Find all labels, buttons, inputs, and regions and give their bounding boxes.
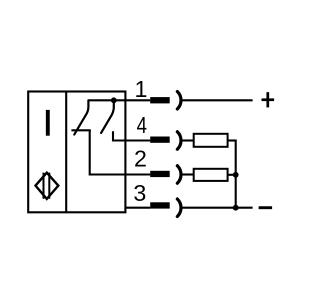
svg-text:2: 2 [134, 146, 147, 172]
svg-text:4: 4 [137, 113, 148, 138]
svg-text:3: 3 [133, 180, 146, 206]
svg-text:1: 1 [135, 76, 148, 102]
